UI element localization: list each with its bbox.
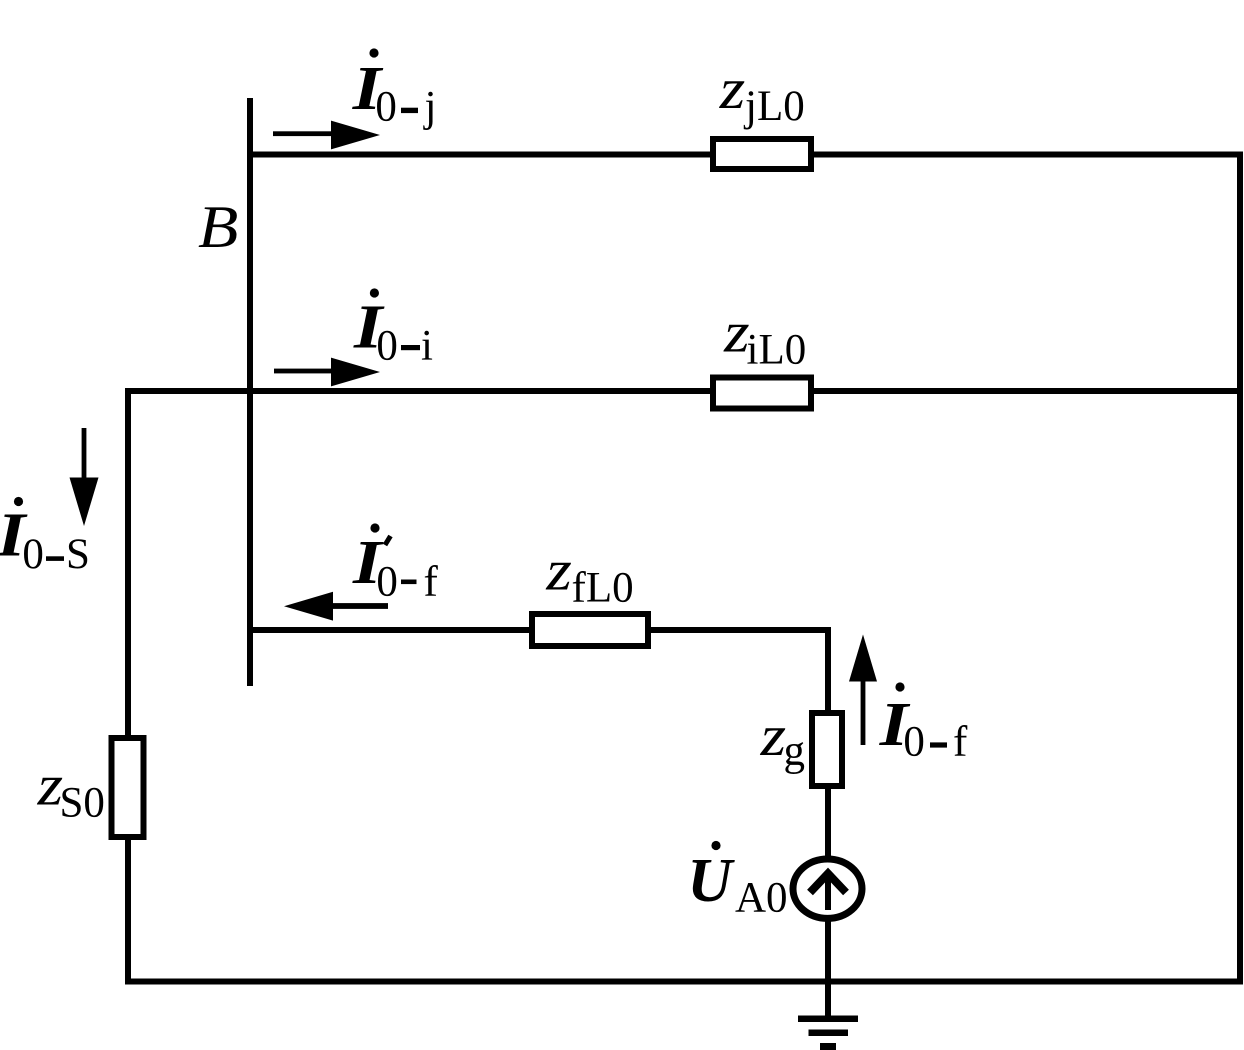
svg-text:A0: A0: [735, 875, 788, 922]
label z_iL0: [723, 301, 806, 374]
wire right edge vertical: [1237, 152, 1243, 985]
arrow I0-S (down): [70, 428, 99, 526]
resistor z_g: [812, 713, 842, 786]
resistor z_S0: [112, 738, 144, 837]
wire third branch f (bus to fault branch corner): [247, 627, 831, 633]
label U_A0: [687, 841, 787, 922]
label z_jL0: [719, 57, 805, 130]
label z_S0: [37, 754, 105, 827]
svg-text:0: 0: [22, 531, 44, 578]
label I0-i: [353, 288, 433, 369]
label I0-S: [0, 497, 90, 578]
svg-text:g: g: [784, 728, 806, 775]
svg-text:U: U: [687, 847, 735, 915]
svg-text:0: 0: [375, 84, 397, 131]
label I0-j: [352, 48, 437, 130]
svg-text:z: z: [545, 539, 572, 603]
label I'0-f: [352, 523, 439, 605]
wire top branch j (bus to right edge): [247, 152, 1243, 158]
svg-text:i: i: [421, 323, 433, 370]
wire fault branch vertical: [825, 627, 831, 1019]
node B bus bar: [247, 98, 253, 686]
svg-text:0: 0: [903, 719, 925, 766]
svg-text:j: j: [423, 84, 437, 131]
wire left vertical (source branch S): [125, 388, 131, 984]
resistor z_fL0: [532, 614, 648, 646]
svg-text:B: B: [198, 194, 238, 261]
svg-text:S0: S0: [60, 780, 105, 827]
svg-text:jL0: jL0: [743, 83, 805, 130]
svg-text:0: 0: [376, 323, 398, 370]
svg-text:iL0: iL0: [747, 327, 807, 374]
wire second branch i (left wire to right edge): [125, 388, 1243, 394]
arrow I0-f (up): [849, 635, 877, 746]
svg-text:f: f: [953, 719, 968, 766]
arrow I'0-f (left): [284, 592, 388, 621]
label z_fL0: [545, 539, 633, 612]
arrow I0-i: [274, 358, 380, 387]
svg-text:fL0: fL0: [572, 565, 634, 612]
ground: [798, 1016, 858, 1050]
svg-text:z: z: [719, 57, 746, 121]
svg-text:z: z: [760, 704, 787, 768]
svg-text:f: f: [424, 559, 439, 606]
label z_g: [760, 704, 805, 774]
resistor z_iL0: [713, 378, 811, 409]
source U_A0 circle: [793, 859, 862, 918]
arrow I0-j: [273, 121, 380, 150]
svg-text:0: 0: [376, 559, 398, 606]
resistor z_jL0: [713, 139, 811, 169]
label I0-f: [879, 682, 968, 765]
svg-text:S: S: [66, 531, 90, 578]
wire bottom return: [125, 979, 1243, 985]
